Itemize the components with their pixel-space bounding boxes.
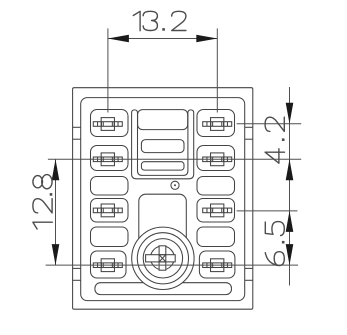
pocket row2 left bbox=[91, 146, 129, 171]
arrow 13.2 left bbox=[108, 35, 129, 43]
extension line row1 right bbox=[237, 123, 302, 125]
dimension line 12.8 bbox=[55, 159, 57, 265]
right side notch upper bbox=[245, 126, 253, 128]
dimension text 12.8 bbox=[33, 222, 52, 229]
center pocket A bbox=[138, 110, 188, 130]
pocket row2 right bbox=[197, 146, 235, 171]
socket body outer outline bbox=[73, 88, 253, 310]
pocket empty B left bbox=[91, 227, 129, 247]
dimension text 4.2 bbox=[265, 117, 284, 131]
arrow 6.5 top bbox=[286, 211, 294, 232]
extension line row4 full bbox=[46, 264, 298, 266]
bottom strip pocket bbox=[95, 283, 232, 295]
terminal row3 left bbox=[93, 204, 122, 217]
terminal row1 left bbox=[93, 118, 122, 131]
left side notch lower bbox=[73, 267, 81, 269]
center pocket C bbox=[141, 162, 184, 170]
extension line top left bbox=[107, 28, 109, 112]
decimal point 4.2 bbox=[282, 138, 285, 141]
center pocket D above screw bbox=[139, 194, 187, 244]
terminal row3 right bbox=[203, 204, 232, 217]
terminal row1 right bbox=[203, 118, 232, 131]
right side notch lower bbox=[245, 267, 253, 269]
pocket row3 left bbox=[91, 199, 129, 223]
locating hole center dot bbox=[174, 184, 176, 186]
pocket row1 left bbox=[91, 110, 129, 137]
decimal point 13.2 bbox=[162, 28, 165, 31]
extension line row2 full bbox=[48, 158, 301, 160]
pocket row1 right bbox=[197, 110, 235, 137]
pocket empty B right bbox=[197, 227, 235, 247]
extension line row3 right bbox=[237, 210, 298, 212]
decimal point 12.8 bbox=[50, 193, 53, 196]
pocket empty A right bbox=[197, 177, 235, 196]
arrow 12.8 top bbox=[52, 159, 60, 180]
dimension text 13.2 bbox=[133, 11, 140, 30]
decimal point 6.5 bbox=[282, 241, 285, 244]
locating hole bbox=[171, 181, 179, 189]
screw head circle bbox=[151, 246, 175, 270]
arrow 12.8 bottom bbox=[52, 244, 60, 265]
arrow 4.2 bottom bbox=[286, 159, 294, 180]
left side notch upper bbox=[73, 126, 81, 128]
center pocket B bbox=[141, 140, 184, 153]
pocket row4 right bbox=[199, 251, 235, 278]
screw boss ring 2 bbox=[137, 233, 188, 284]
arrow 4.2 top bbox=[286, 103, 294, 124]
screw boss ring 3 bbox=[143, 239, 182, 278]
arrow 6.5 bottom bbox=[286, 244, 294, 265]
terminal row2 left bbox=[93, 153, 122, 166]
dimension text 6.5 bbox=[265, 222, 284, 236]
screw boss outer circle bbox=[132, 227, 194, 289]
terminal row2 right bbox=[203, 153, 232, 166]
socket body inner wall bbox=[81, 98, 245, 301]
dimension line right 4.2 6.5 bbox=[289, 87, 291, 286]
screw cross horizontal bar bbox=[146, 255, 176, 262]
terminal row4 right bbox=[203, 259, 232, 272]
pocket empty A left bbox=[91, 177, 129, 196]
pocket row3 right bbox=[197, 199, 235, 223]
arrow 13.2 right bbox=[196, 35, 217, 43]
pocket row4 left bbox=[91, 251, 127, 278]
screw center square bbox=[159, 255, 166, 262]
extension line top right bbox=[216, 28, 218, 112]
U-channel around center pockets bbox=[132, 110, 194, 179]
screw cross vertical bar bbox=[159, 246, 166, 270]
terminal row4 left bbox=[93, 259, 122, 272]
dimension line 13.2 bbox=[108, 38, 217, 40]
